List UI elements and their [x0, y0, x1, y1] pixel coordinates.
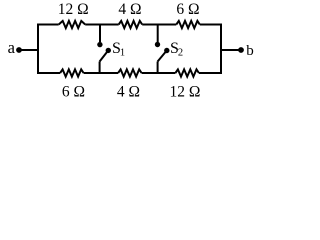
svg-text:a: a — [8, 38, 16, 57]
svg-text:4 Ω: 4 Ω — [117, 84, 140, 101]
svg-text:b: b — [246, 43, 254, 59]
svg-text:6 Ω: 6 Ω — [62, 84, 85, 101]
svg-text:1: 1 — [120, 48, 125, 59]
svg-text:4 Ω: 4 Ω — [118, 1, 141, 18]
svg-text:12 Ω: 12 Ω — [58, 1, 89, 18]
svg-text:2: 2 — [178, 48, 183, 59]
svg-text:6 Ω: 6 Ω — [176, 1, 199, 18]
svg-text:12 Ω: 12 Ω — [170, 84, 201, 101]
